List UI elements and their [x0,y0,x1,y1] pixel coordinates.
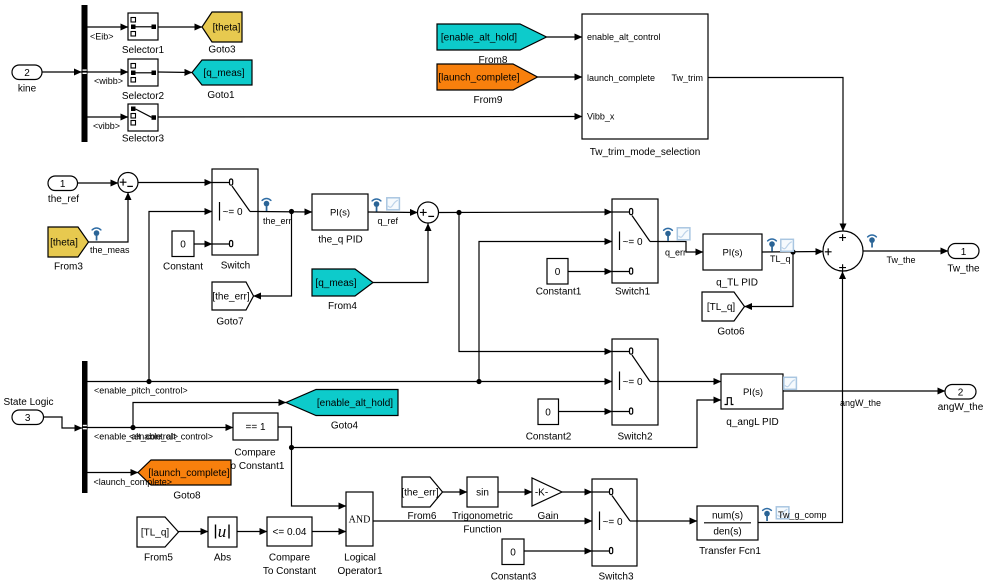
svg-text:Goto4: Goto4 [331,421,359,432]
svg-text:1: 1 [961,247,967,258]
svg-text:Switch3: Switch3 [598,572,633,583]
svg-text:Tw_g_comp: Tw_g_comp [778,510,827,520]
svg-text:From9: From9 [474,95,503,106]
svg-text:2: 2 [958,388,964,399]
svg-text:the_ref: the_ref [48,194,79,205]
svg-text:Transfer Fcn1: Transfer Fcn1 [699,546,761,557]
svg-text:From5: From5 [144,553,173,564]
svg-text:<wibb>: <wibb> [94,76,123,86]
svg-text:[q_meas]: [q_meas] [315,278,356,289]
svg-text:From4: From4 [328,301,357,312]
svg-text:Goto6: Goto6 [717,327,745,338]
svg-text:q_TL PID: q_TL PID [716,278,758,289]
svg-text:[TL_q]: [TL_q] [707,302,736,313]
svg-text:angW_the: angW_the [938,402,984,413]
svg-text:Selector1: Selector1 [122,45,165,56]
svg-text:angW_the: angW_the [840,398,881,408]
svg-text:0: 0 [510,548,516,559]
svg-text:From6: From6 [408,511,437,522]
svg-text:<enable_pitch_control>: <enable_pitch_control> [94,386,188,396]
svg-text:[the_err]: [the_err] [401,488,438,499]
svg-text:den(s): den(s) [713,527,741,538]
svg-text:Abs: Abs [214,553,231,564]
svg-text:Tw_the: Tw_the [947,264,980,275]
svg-text:Selector2: Selector2 [122,91,165,102]
svg-text:To Constant1: To Constant1 [226,461,285,472]
svg-text:[enable_alt_hold]: [enable_alt_hold] [317,398,393,409]
svg-text:launch_complete: launch_complete [587,73,655,83]
svg-text:the_meas: the_meas [90,245,130,255]
svg-text:[TL_q]: [TL_q] [141,528,170,539]
svg-text:Switch1: Switch1 [615,287,650,298]
svg-text:Constant2: Constant2 [526,432,572,443]
svg-text:[launch_complete]: [launch_complete] [438,73,519,84]
svg-text:== 1: == 1 [245,422,265,433]
svg-text:-K-: -K- [535,488,548,499]
svg-text:<enable_alt_control>: <enable_alt_control> [129,432,213,442]
svg-text:q_err: q_err [665,248,686,258]
svg-text:~= 0: ~= 0 [623,377,643,388]
svg-text:Goto1: Goto1 [207,90,235,101]
svg-text:Operator1: Operator1 [337,566,382,577]
svg-text:Constant3: Constant3 [491,572,537,583]
svg-text:[enable_alt_hold]: [enable_alt_hold] [441,33,517,44]
svg-text:[theta]: [theta] [213,23,241,34]
svg-text:enable_alt_control: enable_alt_control [587,32,661,42]
svg-text:Switch2: Switch2 [617,432,652,443]
svg-text:PI(s): PI(s) [330,208,350,219]
svg-text:<= 0.04: <= 0.04 [273,527,307,538]
svg-text:the_q PID: the_q PID [318,235,362,246]
svg-text:Tw_trim: Tw_trim [672,73,704,83]
svg-text:~= 0: ~= 0 [623,237,643,248]
svg-text:kine: kine [18,84,37,95]
svg-text:~= 0: ~= 0 [603,517,623,528]
svg-text:sin: sin [476,488,489,499]
svg-text:Compare: Compare [234,448,276,459]
svg-text:0: 0 [180,240,186,251]
svg-text:Goto3: Goto3 [208,45,236,56]
svg-text:Tw_the: Tw_the [887,255,916,265]
svg-text:Trigonometric: Trigonometric [452,511,513,522]
svg-text:q_ref: q_ref [378,216,399,226]
svg-text:q_angL PID: q_angL PID [726,417,778,428]
svg-text:0: 0 [555,267,561,278]
svg-text:Compare: Compare [269,553,311,564]
svg-text:<vibb>: <vibb> [93,121,120,131]
svg-text:0: 0 [545,408,551,419]
svg-text:AND: AND [349,515,371,526]
svg-text:num(s): num(s) [712,511,743,522]
svg-text:Constant1: Constant1 [536,287,582,298]
svg-text:Function: Function [463,525,501,536]
svg-text:From3: From3 [54,262,83,273]
svg-text:Goto7: Goto7 [216,317,244,328]
svg-text:Gain: Gain [537,511,558,522]
svg-text:PI(s): PI(s) [722,248,742,259]
svg-text:<Eib>: <Eib> [90,32,114,42]
svg-text:[theta]: [theta] [50,238,78,249]
svg-text:Logical: Logical [344,553,376,564]
svg-text:the_err: the_err [263,216,292,226]
svg-text:Selector3: Selector3 [122,134,165,145]
svg-text:Goto8: Goto8 [173,491,201,502]
svg-text:State Logic: State Logic [3,397,53,408]
svg-text:~= 0: ~= 0 [223,207,243,218]
svg-text:Constant: Constant [163,262,203,273]
svg-text:Switch: Switch [221,261,250,272]
svg-text:TL_q: TL_q [770,254,791,264]
svg-text:PI(s): PI(s) [743,387,763,398]
svg-text:[the_err]: [the_err] [212,292,249,303]
svg-text:[q_meas]: [q_meas] [203,68,244,79]
svg-text:u: u [218,522,227,541]
svg-text:<launch_complete>: <launch_complete> [94,477,173,487]
svg-text:1: 1 [60,179,66,190]
svg-text:To Constant: To Constant [263,566,317,577]
svg-text:2: 2 [24,68,30,79]
svg-text:Vibb_x: Vibb_x [587,112,615,122]
svg-text:Tw_trim_mode_selection: Tw_trim_mode_selection [590,147,701,158]
svg-text:3: 3 [25,413,31,424]
